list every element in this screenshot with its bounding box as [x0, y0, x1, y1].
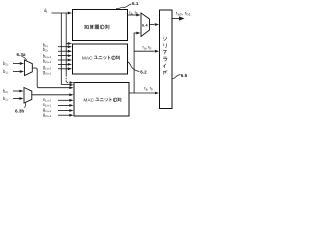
svg-text:6.3b: 6.3b — [15, 109, 24, 114]
svg-text:b2,i: b2,i — [43, 47, 49, 53]
svg-text:6.5: 6.5 — [181, 73, 188, 78]
wire mux 6.3b input 2 — [13, 98, 20, 100]
wire mux 6.3a input 2 — [13, 71, 21, 73]
arrow serializer mid input — [155, 50, 159, 53]
arrow mux 6.4 out into serializer — [155, 23, 159, 26]
adder box U_add 加算器の列 — [73, 10, 128, 41]
wire MAC1 input 2 — [58, 50, 68, 52]
small signal labels left of MAC1 — [3, 42, 52, 118]
mux 6.4 — [141, 13, 150, 37]
kana の (1) — [112, 56, 116, 60]
arrow serializer bottom input — [155, 92, 159, 95]
arrow v2 into MAC2 — [70, 81, 74, 84]
mux 6.3b — [24, 88, 32, 104]
svg-text:b2,i+1: b2,i+1 — [43, 58, 52, 64]
kana リ — [164, 43, 167, 47]
svg-text:ra, rb: ra, rb — [143, 45, 152, 51]
wire MAC1 input 3 — [58, 55, 68, 57]
wire MAC2 input 1 — [58, 99, 70, 101]
arrows mux 6.3a inputs — [20, 62, 24, 65]
kana シ — [163, 37, 167, 41]
svg-text:di: di — [44, 8, 47, 14]
kana の (2) — [113, 98, 117, 102]
kana ア — [163, 50, 167, 54]
vertical text シリアライザ in serializer — [163, 37, 167, 75]
kana ッ (1) — [103, 56, 106, 59]
arrowheads — [19, 12, 184, 117]
kana ニ (1) — [98, 56, 102, 58]
arrow v1 into MAC1 — [68, 42, 72, 45]
kanji 列 (1) — [116, 56, 119, 60]
arrow d_i — [68, 12, 72, 15]
leader 6.3b — [25, 103, 26, 108]
wire MAC2 input 4 — [58, 114, 70, 116]
leader 6.1 — [116, 4, 132, 9]
kana ザ — [163, 70, 167, 74]
text labels (latin) — [15, 1, 191, 113]
kanji 器 — [95, 25, 99, 29]
wire MAC2 output to serializer — [129, 92, 155, 94]
kana イ — [163, 64, 166, 68]
svg-text:MAC: MAC — [84, 98, 95, 103]
kana ユ (2) — [95, 98, 99, 101]
kanji text 加算器の列 (hand-drawn strokes) — [84, 25, 109, 29]
svg-text:b2,i: b2,i — [3, 88, 9, 94]
wire MAC2 input 2 — [58, 104, 70, 106]
svg-text:b1,i: b1,i — [3, 69, 9, 75]
kanji 列 — [105, 25, 109, 29]
wire vertical bus to mux 6.4 / serializer — [134, 33, 136, 93]
leader 6.5 — [172, 75, 180, 79]
wire MAC1 input 4 — [58, 59, 68, 61]
svg-text:g2,i+1: g2,i+1 — [43, 70, 52, 76]
svg-text:6.2: 6.2 — [140, 69, 147, 74]
svg-text:MAC: MAC — [82, 56, 93, 61]
kanji 加 — [84, 25, 88, 29]
leader 6.3a — [22, 56, 27, 60]
leader 6.2 — [128, 62, 139, 72]
wire mux 6.4 output — [150, 24, 155, 26]
wire mux 6.3a input 1 — [13, 63, 21, 65]
svg-text:ra, rb: ra, rb — [144, 86, 153, 92]
wire MAC2 input 3 — [58, 110, 70, 112]
mux 6.3a — [25, 60, 33, 76]
svg-text:g2,i+1: g2,i+1 — [43, 112, 52, 118]
svg-text:6.4: 6.4 — [142, 22, 148, 27]
kana の — [100, 25, 104, 29]
kana ユ (1) — [94, 56, 98, 59]
text MACユニットの列 (box 1) — [82, 56, 119, 61]
kanji 列 (2) — [117, 98, 120, 102]
kanji 算 — [90, 25, 94, 29]
kana ラ — [163, 57, 167, 61]
svg-text:b2,i: b2,i — [3, 61, 9, 67]
svg-text:ra0, rb1: ra0, rb1 — [176, 10, 191, 16]
arrow serializer output — [179, 16, 185, 20]
svg-text:b1,i: b1,i — [3, 96, 9, 102]
wire 6.3a output to bus — [32, 68, 70, 88]
kana ッ (2) — [105, 98, 108, 101]
wire serializer output — [172, 18, 179, 20]
serializer box 6.5 — [160, 10, 173, 109]
wire adder output to mux 6.4 — [128, 14, 137, 16]
wire vertical v1 — [61, 13, 70, 84]
svg-text:6.1: 6.1 — [132, 1, 139, 6]
wire vertical v2 — [65, 13, 67, 75]
svg-text:6.3a: 6.3a — [17, 52, 26, 57]
text MACユニットの列 (box 2) — [84, 98, 121, 103]
wire mux 6.3b input 1 — [13, 90, 20, 92]
wire MAC1 input 1 — [58, 46, 68, 48]
arrow adder out into mux 6.4 — [136, 14, 140, 17]
wire d_i into adder — [52, 12, 69, 14]
MAC unit column box 2 — [74, 83, 129, 117]
kana ト (1) — [108, 56, 110, 60]
MAC unit column box 1 — [73, 44, 128, 74]
arrow 6.3b wire into MAC2 — [69, 86, 73, 89]
wire MAC1 input 5 — [58, 63, 68, 65]
kana ト (2) — [110, 98, 112, 102]
wire MAC1 input 6 — [58, 68, 68, 70]
arrows mux 6.3b inputs — [19, 90, 23, 93]
kana ニ (2) — [100, 98, 104, 100]
arrows MAC1 inputs — [68, 45, 72, 48]
arrows MAC2 inputs — [69, 93, 73, 96]
wire serializer mid input — [134, 50, 154, 52]
wire 6.3b output into MAC2 — [32, 94, 70, 96]
arrow bus into mux 6.4 — [136, 32, 140, 35]
